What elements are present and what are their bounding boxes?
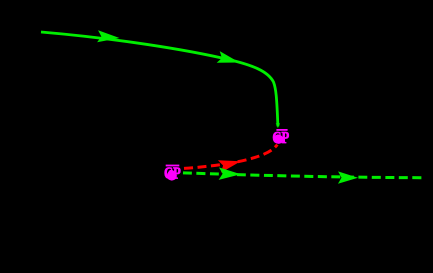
wire: red dashed flow from lower fixed point to upper fixed point xyxy=(184,145,277,169)
node D: red arrowhead on dashed red curve xyxy=(218,155,242,173)
wire: green solid flow curve into upper fixed point xyxy=(41,32,278,126)
node B: arrowhead on solid curve (mid) xyxy=(217,51,241,68)
node E: green arrowhead on dashed line (left) xyxy=(219,167,241,180)
svg-text:CP: CP xyxy=(164,165,181,183)
node CP1: upper fixed point marker (magenta dot + overline CP label) xyxy=(272,129,289,148)
wire: green dashed flow from lower fixed point to the right xyxy=(182,173,425,178)
node C: small arrowhead pointing down into upper fixed point xyxy=(276,123,280,128)
node A: arrowhead on solid curve (left) xyxy=(97,30,120,44)
node CP2: lower fixed point marker (magenta dot + overline CP label) xyxy=(164,165,181,183)
node F: green arrowhead on dashed line (right) xyxy=(338,171,358,184)
svg-text:CP: CP xyxy=(272,129,289,147)
